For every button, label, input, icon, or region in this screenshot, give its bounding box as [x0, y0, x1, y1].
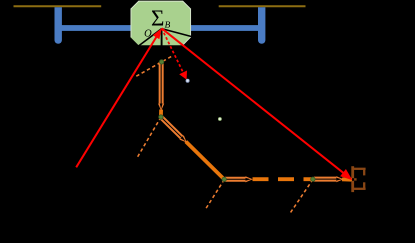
gripper (end effector)	[353, 166, 366, 192]
label Sigma_B	[152, 10, 163, 25]
joint 4 reference dashed line	[290, 179, 313, 213]
body box light bevel edges	[131, 1, 191, 45]
arm CoG marker (pale green dot)	[218, 118, 221, 121]
link 2 (elbow to wrist)	[160, 116, 224, 179]
joint 3 reference dashed line	[206, 180, 225, 209]
joint 2	[159, 115, 163, 119]
right propeller blade	[219, 5, 306, 7]
joint 3	[222, 177, 226, 181]
vector p_c dashed (origin to CoG dot)	[162, 28, 187, 79]
left frame arm (blue bar)	[57, 25, 132, 31]
body z-axis (black, down)	[161, 29, 163, 47]
body frame box (green octagon)	[131, 1, 192, 46]
joint 1 reference dashed line	[136, 56, 172, 76]
joint 2 reference dashed line	[137, 117, 161, 157]
link 1 (shoulder to elbow)	[158, 62, 164, 117]
vector p_e (origin to gripper)	[162, 28, 353, 180]
body y-axis (black, down-right)	[162, 29, 192, 37]
left propeller blade	[14, 5, 102, 7]
joint 4	[311, 177, 315, 181]
left motor post	[55, 7, 62, 44]
right frame arm (blue bar)	[189, 25, 263, 31]
body x-axis (black, down-left)	[139, 29, 162, 46]
joint 1	[159, 60, 163, 64]
label O (origin)	[145, 30, 152, 37]
vector r (bottom-left to origin, head at origin)	[76, 28, 161, 167]
right motor post	[258, 7, 265, 44]
link 4 (joint 4 to gripper)	[314, 176, 352, 182]
CoG marker (pale blue dot)	[186, 79, 189, 82]
link 3 (dashed, wrist to joint 4)	[225, 176, 312, 182]
